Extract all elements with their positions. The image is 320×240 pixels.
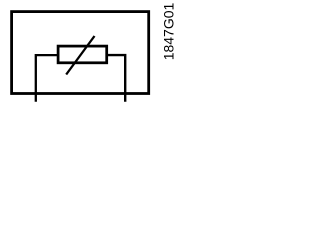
schematic frame border	[12, 12, 149, 94]
varistor diagonal stroke	[66, 36, 94, 75]
wire: left lead from resistor to bottom terminal	[36, 55, 59, 102]
svg-text:1847G01: 1847G01	[161, 2, 177, 60]
wire: right lead from resistor to bottom terminal	[107, 55, 126, 102]
resistor (varistor) body	[58, 46, 107, 63]
